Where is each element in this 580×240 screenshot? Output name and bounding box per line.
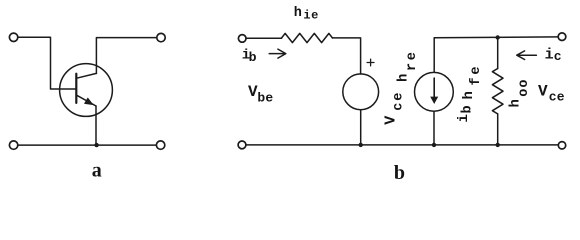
current source internal arrow [433,78,435,99]
svg-text:c: c [554,49,562,64]
terminal output top-right (fig b) [558,33,566,41]
wire: emitter down to bottom rail [95,106,97,145]
wire: resistor to corner, down to voltage source [333,38,361,74]
terminal bottom-left (fig a) [9,141,17,149]
arrow for current i_b [269,49,286,58]
svg-text:h: h [294,6,302,21]
svg-text:b: b [461,105,476,113]
svg-text:b: b [249,50,257,65]
wire: current source bottom to rail [433,111,435,145]
dependent voltage source V_ce*h_re circle [343,74,379,110]
junction dot: emitter on bottom rail (fig a) [94,143,98,147]
svg-text:ce: ce [549,89,565,104]
wire: left terminal to resistor h_ie [246,37,281,39]
svg-text:h: h [396,74,412,82]
transistor base bar [75,74,77,103]
transistor collector diagonal [77,73,97,78]
terminal bottom-right (fig a) [156,141,164,149]
terminal input top-left (fig b) [238,35,246,43]
wire: top rail of output side [434,37,558,72]
wire: bottom rail (fig a) [18,144,156,146]
svg-text:V: V [538,82,548,100]
svg-text:i: i [545,47,554,64]
transistor emitter arrowhead [85,98,93,105]
junction dot: bottom rail at voltage source [359,143,363,147]
svg-text:b: b [394,162,405,182]
terminal bottom-right (fig b) [558,142,565,149]
terminal top-right (fig a) [157,33,165,41]
svg-text:ie: ie [303,9,318,23]
plus sign of voltage source [367,59,374,66]
terminal B-input top-left (fig a) [9,33,17,41]
transistor emitter diagonal [77,95,96,106]
resistor h_oo zigzag [492,69,503,114]
arrow for current i_c [517,51,537,60]
wire: resistor h_oo bottom lead [497,114,499,145]
wire: resistor h_oo top lead [497,38,499,69]
transistor Q (fig a) circle [60,64,113,117]
wire: top-left terminal to base corner [18,37,76,89]
svg-text:V: V [383,116,400,125]
junction dot: top rail at h_oo [496,35,500,39]
svg-text:re: re [405,50,420,71]
svg-text:oo: oo [517,78,532,96]
svg-text:be: be [257,91,273,106]
svg-text:i: i [456,114,472,122]
wire: bottom rail (fig b) [246,144,559,146]
svg-text:h: h [461,91,477,99]
svg-text:ce: ce [392,91,407,111]
svg-text:a: a [92,160,102,182]
svg-text:h: h [507,99,523,107]
terminal bottom-left (fig b) [238,141,246,149]
resistor h_ie zigzag [282,33,333,42]
wire: collector to top-right terminal [96,38,156,74]
wire: voltage source bottom to rail [360,110,362,145]
dependent current source i_b*h_fe circle [415,72,454,111]
junction dot: bottom rail at current source [432,143,436,147]
junction dot: bottom rail at h_oo [496,143,500,147]
svg-text:fe: fe [469,64,484,86]
